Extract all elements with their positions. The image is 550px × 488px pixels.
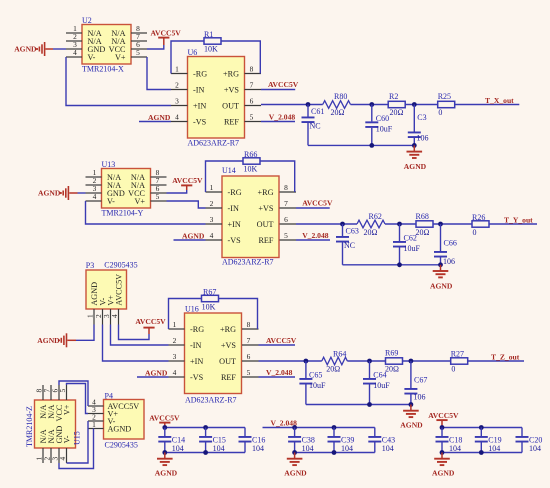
capacitor C63 NC [336, 224, 359, 265]
resistor R69 20ohm [385, 349, 403, 374]
node AVCC5V at U6 pin 7 [261, 80, 299, 89]
svg-text:TMR2104-Z: TMR2104-Z [25, 406, 34, 447]
svg-text:+VS: +VS [224, 85, 240, 94]
svg-text:20Ω: 20Ω [385, 364, 399, 373]
svg-text:106: 106 [414, 393, 426, 402]
svg-text:1: 1 [173, 320, 177, 329]
capacitor C15 104 [199, 428, 226, 454]
svg-text:8: 8 [284, 183, 288, 192]
svg-text:R64: R64 [333, 349, 346, 358]
junction at C63 [340, 222, 345, 227]
svg-text:V_2.048: V_2.048 [302, 231, 329, 240]
junction at C60 [369, 102, 374, 107]
capacitor C61 NC [302, 105, 325, 146]
svg-text:AD623ARZ-R7: AD623ARZ-R7 [185, 396, 237, 405]
svg-text:C63: C63 [346, 227, 359, 236]
svg-text:AGND: AGND [14, 45, 37, 54]
power AVCC5V at U13 pin 6 [172, 176, 203, 190]
svg-text:C60: C60 [376, 114, 389, 123]
svg-text:+RG: +RG [220, 325, 236, 334]
svg-text:AGND: AGND [145, 368, 168, 377]
wire P3.4 to AVCC5V [119, 325, 150, 340]
connector P3 C2905435 [86, 260, 138, 324]
ground AGND below C66 [430, 265, 453, 291]
svg-text:V+: V+ [134, 197, 145, 206]
svg-text:R67: R67 [203, 287, 216, 296]
ground AGND at U2 pin 3 [14, 42, 53, 56]
wire R2 to R25 [405, 104, 438, 106]
capacitor C14 104 [158, 428, 185, 454]
svg-text:-VS: -VS [190, 373, 204, 382]
wire top rail bank 3 [440, 425, 522, 430]
resistor R27 0ohm [451, 350, 468, 374]
svg-text:R1: R1 [204, 30, 213, 39]
svg-text:T_Z_out: T_Z_out [491, 352, 520, 361]
node V 2.048 rail 2 [263, 419, 298, 428]
svg-text:5: 5 [136, 48, 140, 57]
power AVCC5V at P3 pin 4 [135, 317, 166, 334]
svg-text:1: 1 [175, 65, 179, 74]
power AVCC5V rail 1 [149, 413, 180, 427]
wire U2.4 V- to U6.3 [66, 57, 171, 106]
svg-text:-IN: -IN [190, 341, 201, 350]
svg-text:10K: 10K [244, 165, 258, 174]
ground AGND at U13 pin 3 [38, 186, 78, 200]
svg-text:R62: R62 [369, 212, 382, 221]
svg-text:4: 4 [210, 231, 214, 240]
resistor R80 20ohm [323, 92, 351, 117]
svg-text:V-: V- [107, 197, 115, 206]
wire U15.3 GND to P4.1 [59, 429, 94, 469]
svg-text:C65: C65 [309, 370, 322, 379]
svg-text:REF: REF [221, 373, 236, 382]
resistor R68 20ohm [416, 212, 434, 237]
wire U16 OUT rail [259, 360, 322, 362]
wire U15.4 V- to P4.2 [67, 421, 89, 463]
svg-text:U16: U16 [185, 305, 199, 314]
svg-text:C3: C3 [417, 113, 426, 122]
capacitor C60 10uF [365, 105, 393, 146]
svg-text:AGND: AGND [400, 420, 423, 429]
resistor R26 0ohm [472, 213, 489, 237]
svg-text:4: 4 [58, 457, 67, 461]
svg-text:20Ω: 20Ω [331, 108, 345, 117]
svg-text:P3: P3 [86, 261, 94, 270]
capacitor C3 106 [408, 105, 429, 146]
svg-text:104: 104 [213, 444, 225, 453]
resistor R1 10K [204, 30, 221, 54]
svg-text:C66: C66 [444, 239, 457, 248]
ground AGND bank 1 [155, 453, 178, 478]
svg-text:20Ω: 20Ω [364, 228, 378, 237]
svg-text:AGND: AGND [108, 424, 132, 433]
connector P4 C2905435 [88, 391, 144, 449]
resistor R64 20ohm [322, 349, 348, 373]
wire bottom rail bank 2 [292, 450, 375, 455]
svg-text:R80: R80 [334, 92, 347, 101]
capacitor C43 104 [368, 428, 395, 454]
node T_Y_out [504, 215, 533, 224]
svg-text:20Ω: 20Ω [416, 228, 430, 237]
svg-text:V_2.048: V_2.048 [269, 113, 296, 122]
sensor U15 TMR2104-Z rotated [25, 385, 82, 463]
svg-text:AVCC5V: AVCC5V [266, 336, 297, 345]
svg-text:C64: C64 [373, 370, 386, 379]
svg-text:0: 0 [473, 228, 477, 237]
svg-text:5: 5 [156, 192, 160, 201]
junction at C65 [304, 359, 309, 364]
wire U13.4 V- to U14.3 [86, 201, 206, 224]
junction at C3 [412, 102, 417, 107]
svg-text:1: 1 [210, 183, 214, 192]
wire bottom rail bank 1 [162, 450, 245, 455]
svg-text:4: 4 [173, 368, 177, 377]
svg-text:-VS: -VS [228, 236, 242, 245]
wire U14 OUT rail [296, 223, 357, 225]
svg-text:AVCC5V: AVCC5V [151, 28, 182, 37]
svg-text:7: 7 [250, 81, 254, 90]
svg-text:+IN: +IN [190, 357, 203, 366]
svg-text:+RG: +RG [223, 69, 239, 78]
wire R1 to +RG [221, 41, 260, 74]
wire R64 to R69 [347, 360, 385, 362]
svg-text:4: 4 [93, 192, 97, 201]
svg-text:-RG: -RG [190, 325, 204, 334]
node V 2.048 at U14 pin 5 [296, 231, 330, 240]
wire to T_Z_out [468, 360, 524, 362]
svg-text:T_X_out: T_X_out [485, 96, 514, 105]
svg-text:-RG: -RG [228, 188, 242, 197]
svg-text:R27: R27 [451, 350, 464, 359]
svg-text:V+: V+ [62, 404, 71, 415]
ground AGND below C67 [400, 405, 423, 430]
wire bottom rail X [308, 143, 417, 148]
wire -RG loop up [171, 41, 204, 74]
wire R68 to R26 [433, 223, 472, 225]
capacitor C66 106 [434, 224, 457, 266]
node T_Z_out [491, 352, 520, 361]
op-amp U16 AD623ARZ-R7 [169, 305, 259, 405]
svg-text:C61: C61 [311, 107, 324, 116]
wire to T_X_out [455, 104, 520, 106]
svg-text:T_Y_out: T_Y_out [504, 215, 533, 224]
svg-text:6: 6 [247, 352, 251, 361]
svg-text:C67: C67 [414, 376, 427, 385]
svg-text:C62: C62 [404, 233, 417, 242]
svg-text:AGND: AGND [432, 469, 455, 478]
svg-text:AVCC5V: AVCC5V [268, 80, 299, 89]
svg-text:8: 8 [250, 65, 254, 74]
wire -RG loop up Z [169, 299, 202, 330]
wire R66 to +RG [260, 161, 295, 192]
svg-text:10uF: 10uF [376, 124, 393, 133]
svg-text:R2: R2 [389, 92, 398, 101]
svg-text:-VS: -VS [193, 117, 207, 126]
svg-text:-RG: -RG [193, 69, 207, 78]
wire bottom rail bank 3 [440, 450, 522, 455]
svg-text:2: 2 [175, 81, 179, 90]
svg-text:104: 104 [382, 444, 394, 453]
svg-text:7: 7 [247, 336, 251, 345]
resistor R25 0ohm [438, 92, 455, 117]
svg-text:104: 104 [529, 444, 541, 453]
svg-text:AVCC5V: AVCC5V [149, 413, 180, 422]
wire U2.6 VCC to AVCC5V [147, 45, 164, 49]
resistor R62 20ohm [357, 212, 385, 237]
svg-text:R25: R25 [438, 92, 451, 101]
svg-text:104: 104 [302, 444, 314, 453]
node V 2.048 at U16 pin 5 [259, 368, 296, 377]
svg-text:AGND: AGND [38, 189, 61, 198]
svg-text:R26: R26 [472, 213, 485, 222]
svg-text:104: 104 [252, 444, 264, 453]
svg-text:TMR2104-X: TMR2104-X [82, 65, 124, 74]
wire U15.5 V+ to P4.3 [67, 384, 89, 414]
svg-text:P4: P4 [105, 391, 113, 400]
svg-text:R66: R66 [244, 150, 257, 159]
svg-text:2: 2 [210, 199, 214, 208]
svg-text:10K: 10K [202, 303, 216, 312]
svg-text:V+: V+ [115, 53, 126, 62]
capacitor C62 10uF [393, 224, 421, 265]
ground AGND below C3 [404, 145, 427, 171]
wire AGND to U2.3 [53, 48, 66, 50]
svg-text:U14: U14 [222, 166, 236, 175]
capacitor C16 104 [239, 428, 266, 454]
wire top rail bank 2 [292, 425, 375, 430]
node AGND at U16 pin 4 [137, 368, 169, 377]
resistor R66 10K [243, 150, 260, 174]
node AVCC5V at U14 pin 7 [296, 199, 333, 208]
svg-text:AGND: AGND [182, 231, 205, 240]
svg-text:U15: U15 [73, 431, 82, 445]
wire U13.5 V+ to U14.2 [167, 201, 206, 208]
capacitor C20 104 [516, 428, 543, 454]
svg-text:C2905435: C2905435 [104, 260, 137, 269]
svg-text:AGND: AGND [148, 113, 171, 122]
node AGND at U14 pin 4 [174, 231, 206, 240]
svg-text:5: 5 [58, 389, 67, 393]
svg-text:0: 0 [438, 108, 442, 117]
svg-text:R68: R68 [416, 212, 429, 221]
capacitor C18 104 [436, 428, 463, 454]
svg-text:106: 106 [417, 133, 429, 142]
svg-text:3: 3 [210, 215, 214, 224]
wire top rail bank 1 [162, 425, 245, 430]
svg-text:10uF: 10uF [309, 381, 326, 390]
svg-text:104: 104 [449, 444, 461, 453]
power AVCC5V at U2 pin 6 [151, 28, 182, 45]
svg-text:5: 5 [250, 113, 254, 122]
ground AGND bank 3 [432, 453, 455, 478]
wire AGND to U13.3 [78, 192, 86, 194]
power AVCC5V rail 3 [428, 411, 459, 428]
svg-text:U13: U13 [102, 160, 116, 169]
svg-text:20Ω: 20Ω [326, 364, 340, 373]
capacitor C64 10uF [363, 361, 390, 405]
wire bottom rail Y [343, 262, 443, 267]
sensor U2 TMR2104-X [66, 16, 147, 74]
svg-text:NC: NC [344, 241, 355, 250]
svg-text:REF: REF [258, 236, 273, 245]
svg-text:NC: NC [310, 121, 321, 130]
svg-text:8: 8 [247, 320, 251, 329]
svg-text:10uF: 10uF [373, 381, 390, 390]
svg-text:+IN: +IN [193, 101, 206, 110]
svg-text:10uF: 10uF [404, 244, 421, 253]
wire R80 to R2 [351, 104, 389, 106]
capacitor C19 104 [475, 428, 502, 454]
junction at C61 [306, 102, 311, 107]
svg-text:AVCC5V: AVCC5V [302, 199, 333, 208]
svg-text:OUT: OUT [257, 220, 274, 229]
svg-text:AVCC5V: AVCC5V [114, 274, 123, 306]
svg-text:6: 6 [250, 97, 254, 106]
svg-text:-IN: -IN [228, 204, 239, 213]
resistor R2 20ohm [388, 92, 405, 117]
svg-text:AGND: AGND [404, 162, 427, 171]
svg-text:10K: 10K [204, 45, 218, 54]
svg-text:AVCC5V: AVCC5V [428, 411, 459, 420]
capacitor C65 10uF [299, 361, 326, 405]
node AVCC5V at U16 pin 7 [259, 336, 297, 345]
svg-text:OUT: OUT [219, 357, 236, 366]
svg-text:C2905435: C2905435 [105, 440, 138, 449]
svg-text:5: 5 [284, 231, 288, 240]
svg-text:AVCC5V: AVCC5V [135, 317, 166, 326]
svg-text:+IN: +IN [228, 220, 241, 229]
svg-text:U2: U2 [82, 16, 92, 25]
op-amp U14 AD623ARZ-R7 [206, 166, 297, 267]
junction at C64 [367, 359, 372, 364]
wire R67 to +RG [219, 299, 258, 330]
svg-text:-IN: -IN [193, 85, 204, 94]
svg-text:106: 106 [443, 257, 455, 266]
svg-text:OUT: OUT [222, 101, 239, 110]
capacitor C67 106 [404, 361, 427, 405]
svg-text:4: 4 [175, 113, 179, 122]
wire U13.6 VCC to AVCC5V [167, 190, 187, 193]
svg-text:AGND: AGND [430, 281, 453, 290]
svg-text:V-: V- [62, 435, 71, 443]
svg-text:AD623ARZ-R7: AD623ARZ-R7 [188, 138, 240, 147]
svg-text:AGND: AGND [37, 336, 60, 345]
svg-text:V-: V- [88, 53, 96, 62]
svg-text:5: 5 [247, 368, 251, 377]
wire U6 OUT rail [261, 104, 323, 106]
op-amp U6 AD623ARZ-R7 [171, 48, 261, 147]
wire P3.1 to AGND [76, 325, 94, 341]
svg-text:3: 3 [173, 352, 177, 361]
svg-text:V_2.048: V_2.048 [266, 368, 293, 377]
ground AGND bank 2 [284, 453, 307, 478]
svg-text:TMR2104-Y: TMR2104-Y [102, 209, 144, 218]
svg-text:3: 3 [175, 97, 179, 106]
junction at C67 [409, 359, 414, 364]
wire R69 to R27 [403, 360, 451, 362]
svg-text:+VS: +VS [258, 204, 274, 213]
svg-text:R69: R69 [385, 349, 398, 358]
wire bottom rail Z [306, 402, 413, 407]
junction at C66 [438, 222, 443, 227]
sensor U13 TMR2104-Y [86, 160, 167, 218]
wire U15.6 VCC to P4.4 [59, 381, 88, 406]
svg-text:6: 6 [284, 215, 288, 224]
svg-text:7: 7 [284, 199, 288, 208]
svg-text:AGND: AGND [284, 469, 307, 478]
svg-text:+RG: +RG [258, 188, 274, 197]
junction at C62 [397, 222, 402, 227]
svg-text:+VS: +VS [221, 341, 237, 350]
svg-text:REF: REF [224, 117, 239, 126]
wire U2.5 V+ to U6.2 [147, 57, 171, 90]
resistor R67 10K [202, 287, 219, 311]
capacitor C38 104 [288, 428, 315, 454]
svg-text:0: 0 [451, 364, 455, 373]
svg-text:4: 4 [110, 314, 119, 318]
svg-text:AVCC5V: AVCC5V [172, 176, 203, 185]
svg-text:104: 104 [341, 444, 353, 453]
svg-text:AGND: AGND [155, 469, 178, 478]
node T_X_out [485, 96, 514, 105]
capacitor C39 104 [328, 428, 355, 454]
wire R62 to R68 [385, 223, 416, 225]
node AGND at U6 pin 4 [139, 113, 171, 122]
svg-text:AD623ARZ-R7: AD623ARZ-R7 [222, 258, 274, 267]
ground AGND at P3 pin 1 [37, 333, 76, 347]
svg-text:U6: U6 [188, 48, 198, 57]
node V 2.048 at U6 pin 5 [261, 113, 295, 122]
svg-text:20Ω: 20Ω [390, 108, 404, 117]
wire P3.2 V- to U16.3 [103, 325, 169, 362]
svg-text:104: 104 [172, 444, 184, 453]
svg-text:4: 4 [73, 48, 77, 57]
wire to T_Y_out [489, 223, 537, 225]
wire P3.3 V+ to U16.2 [111, 325, 169, 346]
svg-text:1: 1 [92, 420, 96, 429]
svg-text:2: 2 [173, 336, 177, 345]
svg-text:104: 104 [488, 444, 500, 453]
wire -RG loop up Y [206, 161, 244, 192]
